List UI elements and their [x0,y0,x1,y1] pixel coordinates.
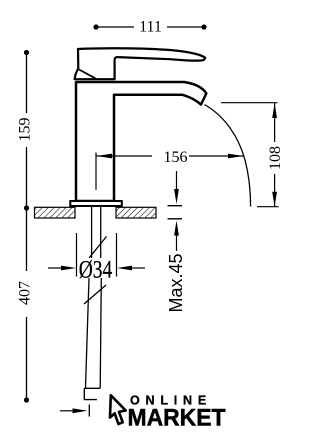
shank pipe upper section [91,206,93,258]
svg-text:407: 407 [17,281,34,305]
centerline of faucet (156 ref) [95,153,97,191]
svg-text:156: 156 [164,149,188,166]
svg-text:159: 159 [17,118,34,142]
svg-text:MARKET: MARKET [128,405,226,432]
svg-text:108: 108 [267,146,284,170]
dimension 156: line and arrows [97,154,244,159]
dimension 111 end dots [93,24,98,29]
dimension O34: extension lines [76,233,78,277]
pipe break slash 1 [89,237,107,259]
logo cursor icon [110,395,126,424]
dimension O34: outside arrows [48,266,145,271]
Max.45 dimension: upper arrow [168,171,183,251]
deck right hatched section [116,207,156,218]
left dimension line (159/407) [26,53,28,401]
svg-text:Max.45: Max.45 [166,253,186,312]
hose end dimension arrow [60,405,89,417]
svg-text:Ø34: Ø34 [79,255,113,283]
base flange [70,201,122,206]
hose end connector [84,388,100,399]
pipe break slash 2 [84,285,106,304]
faucet handle lever [75,48,206,79]
left dimension dots [24,50,29,55]
faucet body and spout [76,82,206,201]
dimension 108: vertical line with arrows [272,103,277,207]
deck left hatched section [35,207,76,218]
svg-text:111: 111 [139,19,162,36]
water stream [205,105,251,207]
dimension 108: extension lines [221,102,278,104]
pipe lower section [86,278,90,388]
dimension 111 top: line [96,26,204,28]
handle underside inner diagonal [79,70,96,79]
